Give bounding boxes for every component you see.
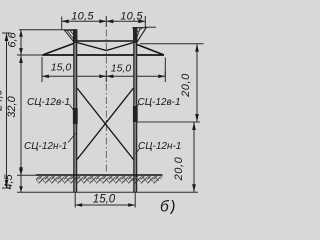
traverse V brace left [77,43,106,51]
svg-text:20,0: 20,0 [173,156,185,181]
ground line [17,174,36,176]
bottom 15,0 dimension [75,193,135,208]
right pole [133,28,138,193]
20,0 upper dimension [196,44,198,122]
bottom reference line [17,191,198,193]
svg-text:СЦ-12н-1: СЦ-12н-1 [138,141,181,152]
svg-text:СЦ-12в-1: СЦ-12в-1 [138,97,181,108]
pole top reference line [19,29,74,31]
traverse left upper chord [43,44,74,56]
svg-text:6,6: 6,6 [7,31,19,47]
svg-text:15,0: 15,0 [93,194,116,206]
traverse bottom chord extension [17,54,43,56]
svg-text:б): б) [160,199,177,215]
traverse V brace right [106,43,133,51]
svg-text:20,0: 20,0 [180,73,192,98]
svg-text:СЦ-12н-1: СЦ-12н-1 [24,141,67,152]
X bracing [77,88,134,160]
15,0 / 15,0 dimension [42,57,165,82]
svg-text:15,0: 15,0 [51,62,72,74]
svg-text:15,0: 15,0 [111,63,132,75]
svg-text:24,0: 24,0 [0,88,4,111]
32,0 dimension [20,55,22,175]
far left overall dimension (cut off at edge) 24,0 [2,33,11,188]
left pole top gusset [65,30,74,41]
20,0 lower dimension [193,122,195,192]
svg-text:32,0: 32,0 [6,95,18,117]
center axis dash-dot line [105,16,107,175]
soil hatch [36,176,163,184]
svg-text:4,5: 4,5 [3,173,15,189]
4,5 dimension [20,175,22,192]
right reference line to 20,0 [140,43,204,45]
svg-text:10,5: 10,5 [71,11,94,23]
section joint reference line right [137,121,200,123]
right pole top gusset [133,28,146,42]
left pole [73,30,78,193]
traverse top chord between poles [76,40,135,42]
svg-text:10,5: 10,5 [120,11,143,23]
traverse right upper chord [137,45,164,56]
traverse bottom chord [43,54,165,56]
svg-text:СЦ-12в-1: СЦ-12в-1 [27,97,70,108]
6,6 dimension [20,30,22,55]
top dimension line 10,5 / 10,5 [62,16,146,30]
